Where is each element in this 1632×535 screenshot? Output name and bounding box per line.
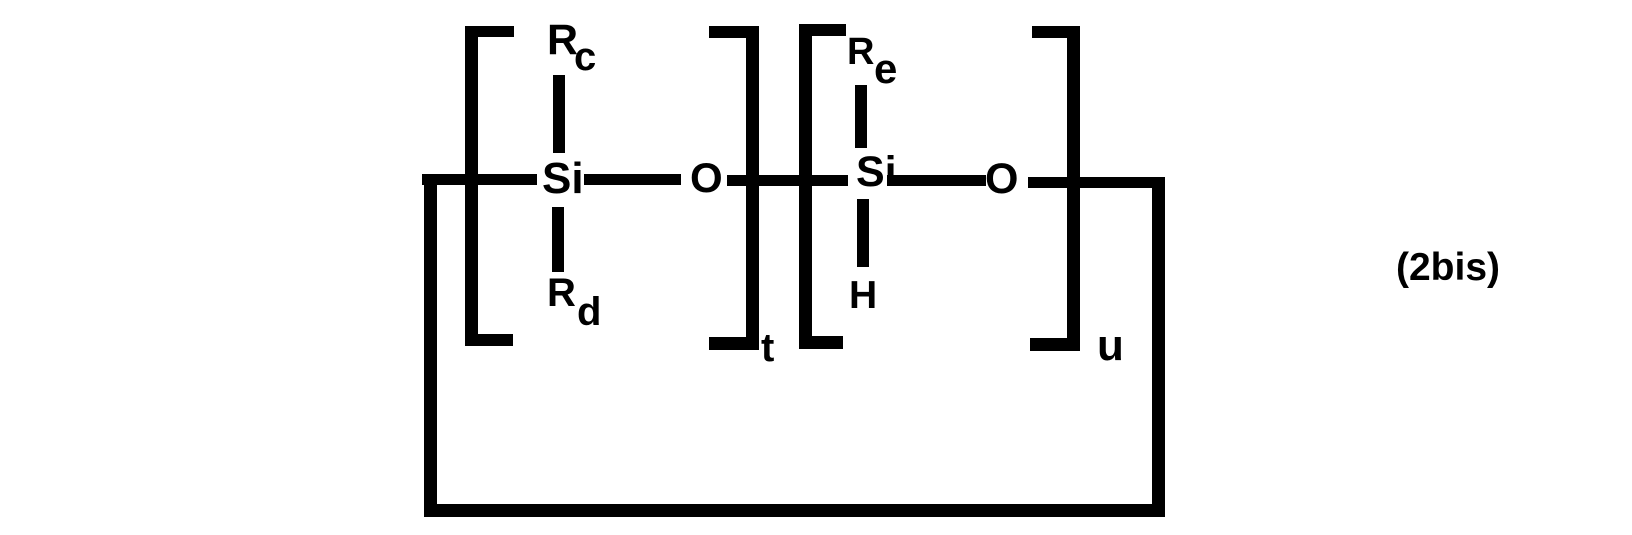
wire bond Si2-O2 xyxy=(887,175,986,186)
svg-text:O: O xyxy=(985,155,1018,203)
bond Re-Si vertical xyxy=(855,85,867,148)
svg-text:Si: Si xyxy=(856,148,897,196)
bracket 2 right top bar xyxy=(1032,26,1080,38)
ring-closure rectangle right edge xyxy=(1152,177,1165,517)
bracket 1 right top bar xyxy=(709,26,759,38)
bracket 2 left top bar xyxy=(799,24,846,36)
wire bond Si-O xyxy=(584,174,681,185)
bond Si-Rd vertical xyxy=(552,207,564,272)
bracket 2 left bottom bar xyxy=(799,336,843,349)
ring-closure rectangle bottom edge xyxy=(424,504,1165,517)
svg-text:H: H xyxy=(849,274,877,317)
bracket 2 left stem xyxy=(799,24,812,349)
svg-text:R: R xyxy=(547,271,576,315)
bracket 1 left bottom bar xyxy=(465,334,513,346)
svg-text:Si: Si xyxy=(542,154,584,203)
wire backbone segment A (rect corner to Si) xyxy=(422,174,537,185)
svg-text:(2bis): (2bis) xyxy=(1396,246,1500,289)
bracket 2 right bottom bar xyxy=(1030,338,1080,351)
svg-text:O: O xyxy=(690,154,723,201)
bracket 1 left top bar xyxy=(465,26,514,37)
bracket 2 right stem xyxy=(1067,26,1080,351)
svg-text:e: e xyxy=(874,45,897,92)
wire bond O2 to rect corner xyxy=(1028,177,1165,188)
bond Si-H vertical xyxy=(857,199,869,267)
svg-text:R: R xyxy=(847,31,874,73)
bond Rc-Si vertical xyxy=(553,75,565,153)
svg-text:c: c xyxy=(574,35,596,79)
bracket 1 left stem xyxy=(465,26,478,346)
wire bond O through brackets xyxy=(727,175,848,186)
svg-text:t: t xyxy=(761,326,774,370)
svg-text:d: d xyxy=(577,290,601,334)
bracket 1 right stem xyxy=(746,26,759,350)
ring-closure rectangle left edge xyxy=(424,174,437,517)
svg-text:u: u xyxy=(1097,321,1124,370)
bracket 1 right bottom bar xyxy=(709,337,759,350)
